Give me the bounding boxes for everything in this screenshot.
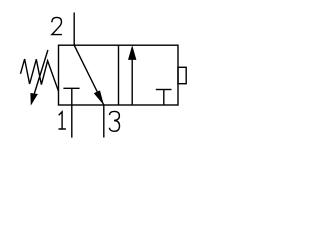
spring zigzag (left side) <box>21 59 59 91</box>
label "2" at port 2 <box>52 17 62 34</box>
actuator tab rectangle (right side) <box>178 67 186 83</box>
arrowhead of flow path 2 to 3 at port 3 <box>94 90 104 105</box>
label "1" at port 1 <box>59 112 66 129</box>
flow path wire 1 to 2 (right position, vertical) <box>131 57 133 105</box>
arrowhead of actuation arrow (points down-left) <box>30 93 38 106</box>
label "3" at port 3 <box>109 111 119 131</box>
port 1 wire (stem through bottom edge) <box>71 88 73 137</box>
actuation arrow shaft through spring <box>33 50 48 100</box>
flow path wire 2 to 3 (left position diagonal) <box>74 45 104 105</box>
blocked port 1 T-symbol crossbar (left position) <box>63 87 79 89</box>
blocked port 3 T-symbol crossbar (right position) <box>156 89 172 91</box>
blocked port 3 T-symbol stem (right position) <box>163 90 165 106</box>
divider between left and right positions <box>118 45 120 105</box>
port 2 wire (top) <box>73 13 75 46</box>
valve body outline (two-position box) <box>59 45 179 105</box>
port 3 wire (bottom) <box>103 105 105 138</box>
arrowhead of flow path 1 to 2 at port 2 (up arrow) <box>128 45 136 60</box>
